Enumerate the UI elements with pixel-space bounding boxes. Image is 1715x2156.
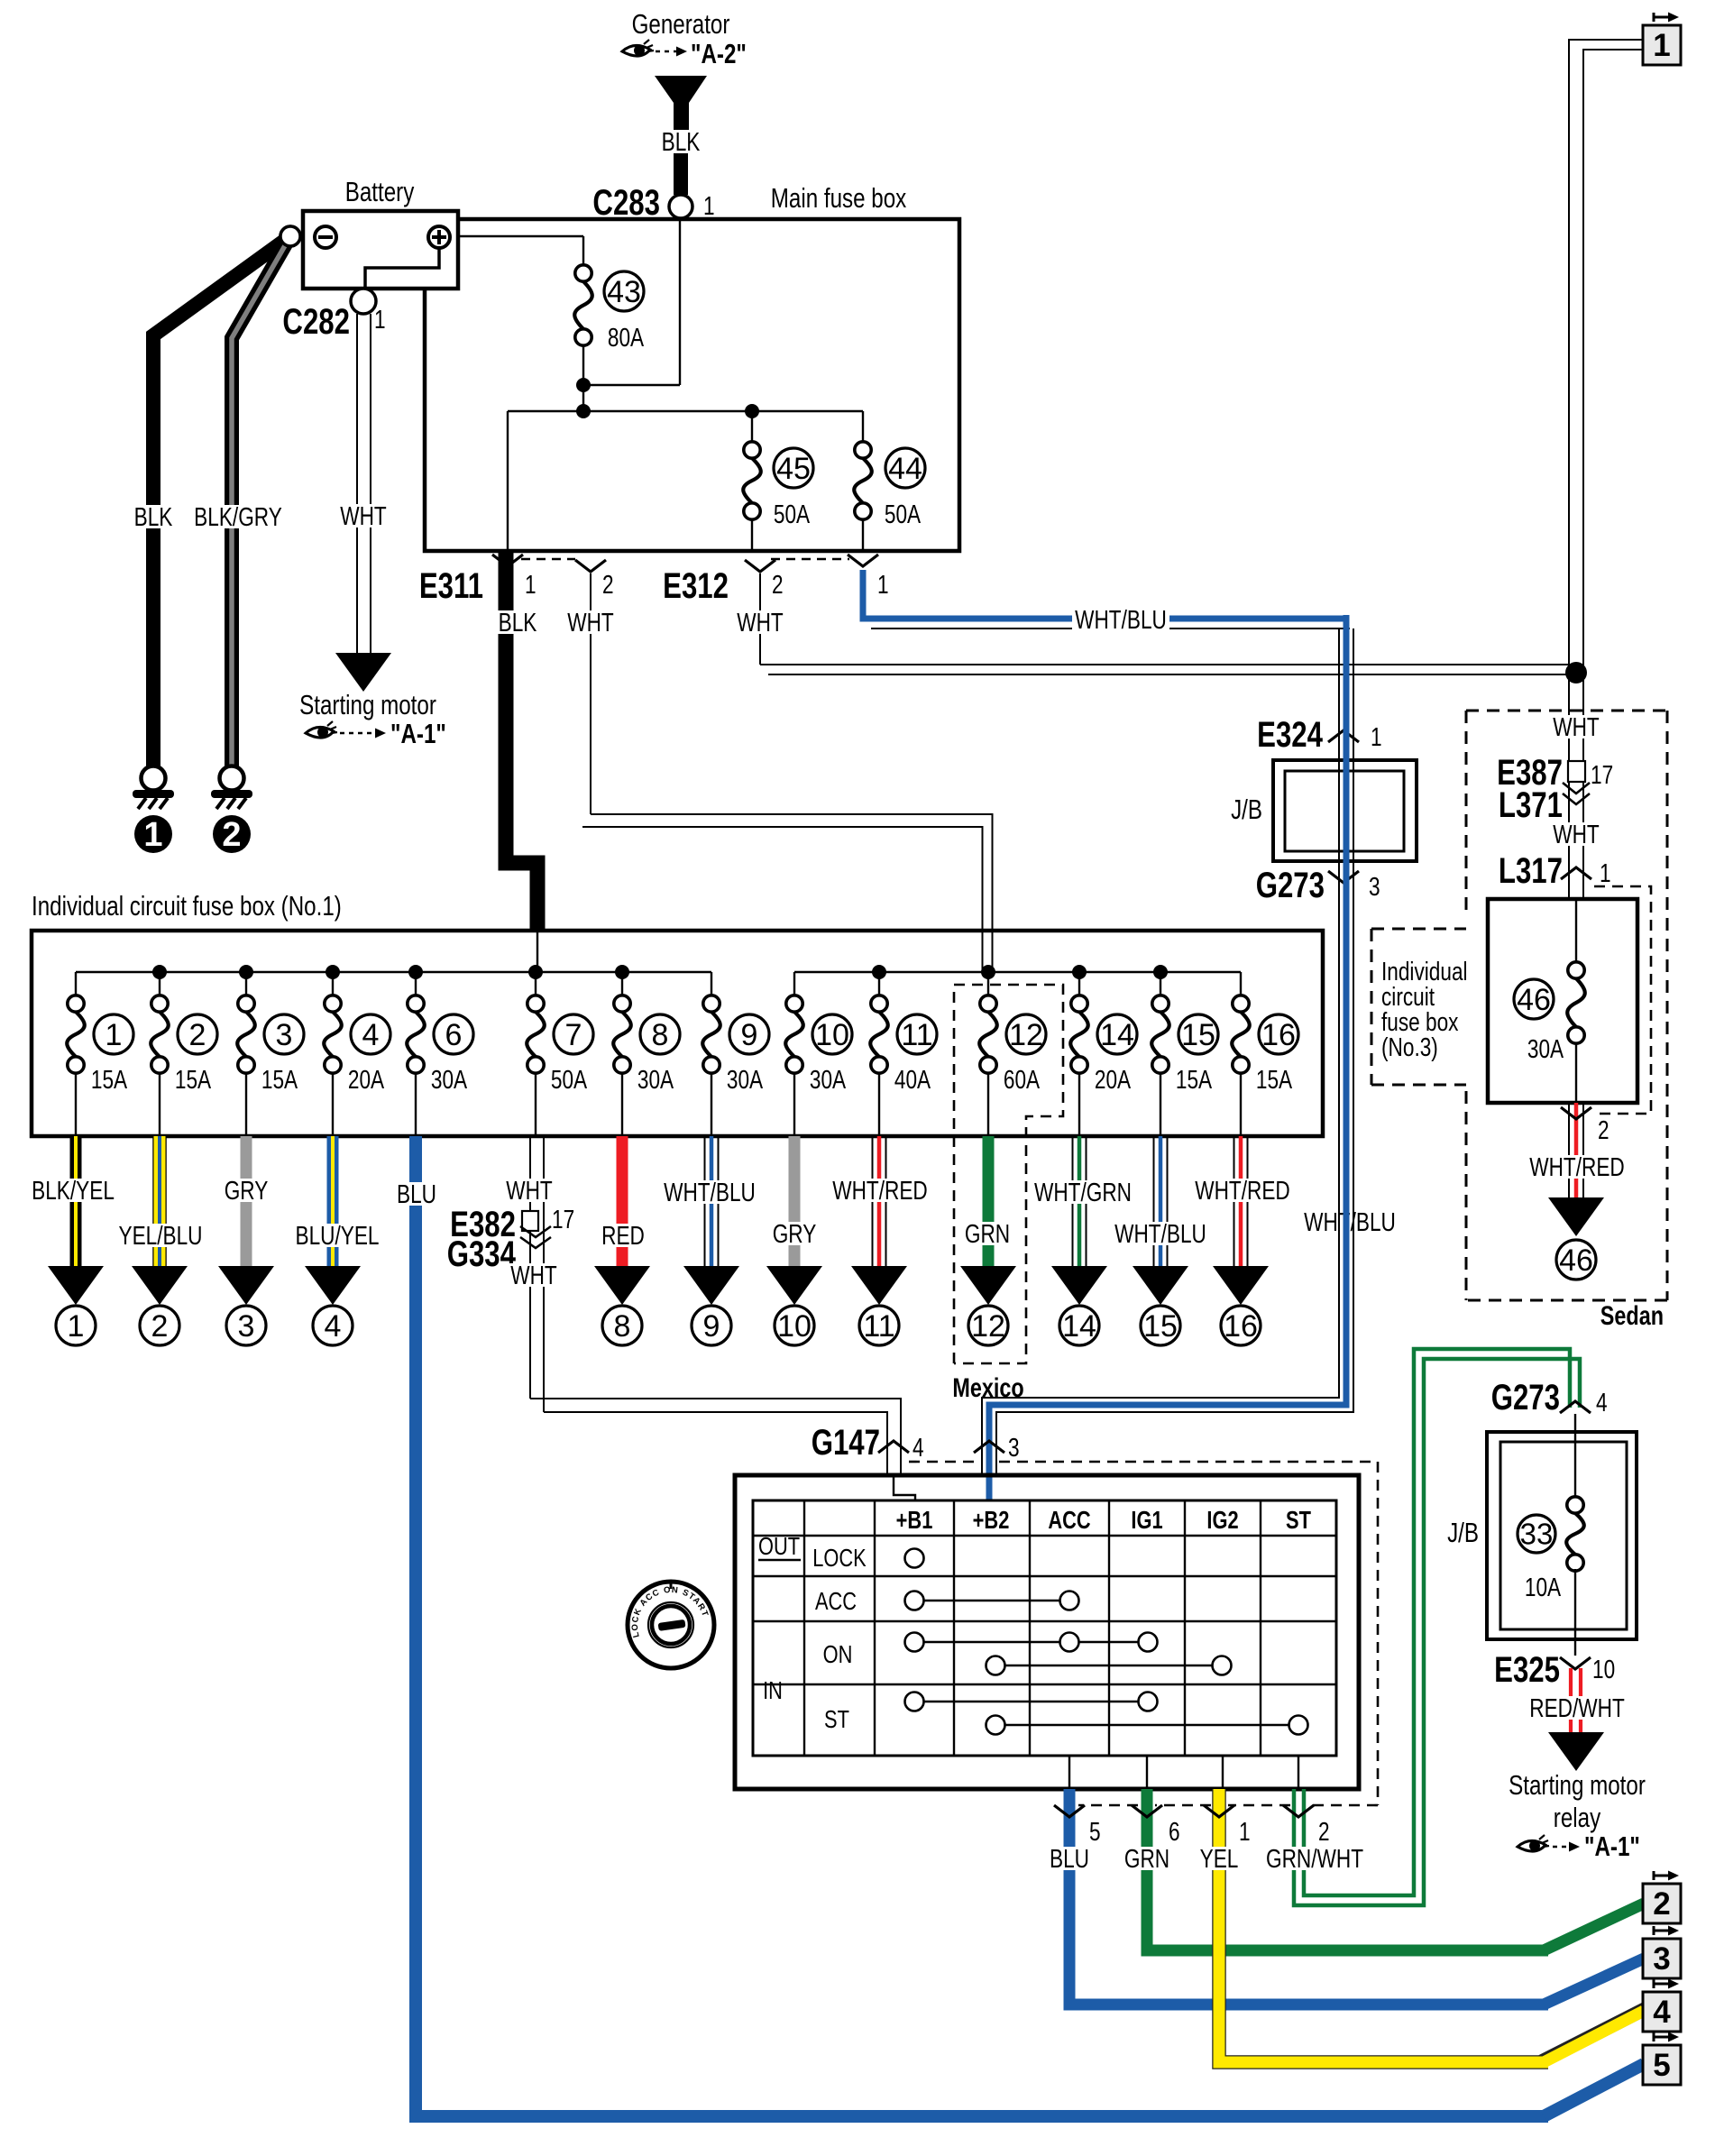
svg-text:8: 8	[652, 1018, 669, 1052]
svg-text:15A: 15A	[1176, 1064, 1213, 1094]
svg-text:"A-1": "A-1"	[390, 718, 446, 749]
svg-text:J/B: J/B	[1231, 794, 1262, 825]
svg-text:GRY: GRY	[773, 1218, 817, 1248]
svg-text:IG1: IG1	[1131, 1506, 1162, 1534]
svg-text:10A: 10A	[1525, 1572, 1562, 1601]
svg-text:E311: E311	[419, 565, 483, 606]
svg-text:GRN: GRN	[1124, 1843, 1169, 1873]
svg-text:4: 4	[1596, 1387, 1608, 1417]
svg-text:IG2: IG2	[1206, 1506, 1238, 1534]
svg-text:+B2: +B2	[973, 1506, 1010, 1534]
svg-text:2: 2	[1653, 1886, 1670, 1922]
svg-text:C283: C283	[592, 182, 660, 223]
svg-text:OUT: OUT	[758, 1532, 800, 1560]
svg-text:WHT: WHT	[567, 607, 614, 637]
svg-text:20A: 20A	[348, 1064, 385, 1094]
svg-text:BLK: BLK	[499, 607, 537, 637]
svg-text:G334: G334	[447, 1234, 516, 1274]
svg-text:WHT: WHT	[1553, 819, 1600, 849]
svg-text:50A: 50A	[885, 499, 922, 528]
svg-text:30A: 30A	[1527, 1033, 1564, 1063]
svg-text:46: 46	[1559, 1243, 1593, 1278]
svg-text:WHT/RED: WHT/RED	[832, 1175, 928, 1205]
svg-text:60A: 60A	[1004, 1064, 1041, 1094]
svg-text:1: 1	[703, 190, 715, 220]
svg-text:E312: E312	[663, 565, 729, 606]
svg-text:YEL: YEL	[1200, 1843, 1239, 1873]
svg-text:1: 1	[68, 1309, 85, 1344]
svg-text:17: 17	[552, 1204, 574, 1234]
svg-text:50A: 50A	[774, 499, 811, 528]
svg-text:IN: IN	[763, 1676, 783, 1704]
svg-text:6: 6	[445, 1018, 463, 1052]
svg-text:12: 12	[1009, 1018, 1043, 1052]
svg-text:Mexico: Mexico	[952, 1372, 1023, 1402]
svg-text:BLK/YEL: BLK/YEL	[32, 1175, 115, 1205]
svg-text:WHT: WHT	[510, 1260, 557, 1289]
svg-text:2: 2	[189, 1018, 206, 1052]
svg-text:43: 43	[607, 275, 641, 309]
svg-text:Main fuse box: Main fuse box	[771, 182, 907, 214]
svg-text:WHT/BLU: WHT/BLU	[1304, 1206, 1396, 1236]
svg-text:WHT/RED: WHT/RED	[1195, 1175, 1290, 1205]
svg-text:WHT/BLU: WHT/BLU	[1114, 1218, 1206, 1248]
svg-text:GRN: GRN	[965, 1218, 1010, 1248]
svg-text:3: 3	[1369, 871, 1380, 901]
svg-text:G147: G147	[812, 1422, 880, 1463]
svg-text:16: 16	[1261, 1018, 1296, 1052]
svg-text:BLK: BLK	[134, 501, 173, 531]
svg-text:10: 10	[1592, 1654, 1615, 1684]
svg-text:3: 3	[1653, 1941, 1670, 1977]
svg-text:14: 14	[1100, 1018, 1134, 1052]
svg-text:J/B: J/B	[1447, 1517, 1479, 1548]
svg-text:14: 14	[1062, 1309, 1096, 1344]
svg-text:17: 17	[1591, 759, 1613, 789]
svg-text:8: 8	[614, 1309, 631, 1344]
svg-text:2: 2	[151, 1309, 169, 1344]
svg-text:30A: 30A	[727, 1064, 764, 1094]
svg-text:1: 1	[374, 304, 386, 334]
svg-text:RED/WHT: RED/WHT	[1529, 1693, 1625, 1722]
svg-text:GRY: GRY	[225, 1175, 269, 1205]
svg-text:46: 46	[1517, 983, 1551, 1017]
svg-text:40A: 40A	[894, 1064, 931, 1094]
svg-text:RED: RED	[601, 1220, 645, 1250]
svg-text:2: 2	[222, 816, 241, 854]
svg-text:20A: 20A	[1095, 1064, 1132, 1094]
svg-text:16: 16	[1224, 1309, 1258, 1344]
svg-text:"A-2": "A-2"	[691, 38, 747, 69]
svg-text:10: 10	[777, 1309, 812, 1344]
svg-text:7: 7	[565, 1018, 582, 1052]
svg-text:BLU: BLU	[397, 1179, 436, 1208]
svg-text:C282: C282	[282, 301, 350, 342]
svg-text:15A: 15A	[261, 1064, 298, 1094]
svg-text:GRN/WHT: GRN/WHT	[1266, 1843, 1363, 1873]
svg-text:1: 1	[1600, 858, 1611, 887]
svg-text:44: 44	[888, 452, 922, 486]
svg-text:Starting motor: Starting motor	[1509, 1769, 1646, 1801]
svg-text:BLU/YEL: BLU/YEL	[295, 1220, 379, 1250]
svg-text:Battery: Battery	[345, 176, 415, 207]
svg-text:WHT/BLU: WHT/BLU	[1075, 604, 1167, 634]
svg-text:ON: ON	[823, 1640, 853, 1668]
svg-text:1: 1	[105, 1018, 123, 1052]
svg-text:ACC: ACC	[815, 1587, 857, 1615]
svg-text:WHT/GRN: WHT/GRN	[1034, 1177, 1132, 1206]
svg-text:1: 1	[525, 569, 537, 599]
svg-text:Sedan: Sedan	[1600, 1300, 1664, 1330]
svg-text:BLU: BLU	[1050, 1843, 1089, 1873]
svg-text:1: 1	[1371, 721, 1382, 751]
svg-text:"A-1": "A-1"	[1584, 1830, 1640, 1862]
svg-text:ACC: ACC	[1048, 1506, 1090, 1534]
svg-text:G273: G273	[1491, 1377, 1560, 1417]
svg-text:15A: 15A	[1256, 1064, 1293, 1094]
svg-text:2: 2	[602, 569, 614, 599]
svg-text:L317: L317	[1499, 850, 1563, 891]
svg-text:1: 1	[143, 816, 162, 854]
svg-text:YEL/BLU: YEL/BLU	[118, 1220, 202, 1250]
svg-text:2: 2	[1318, 1816, 1330, 1846]
svg-text:(No.3): (No.3)	[1381, 1032, 1438, 1061]
svg-text:30A: 30A	[810, 1064, 847, 1094]
svg-text:relay: relay	[1554, 1802, 1600, 1833]
svg-text:4: 4	[913, 1432, 924, 1462]
svg-text:4: 4	[325, 1309, 342, 1344]
svg-text:E325: E325	[1494, 1649, 1560, 1690]
svg-text:6: 6	[1169, 1816, 1180, 1846]
svg-text:2: 2	[1598, 1115, 1610, 1144]
svg-text:BLK/GRY: BLK/GRY	[194, 501, 282, 531]
svg-text:2: 2	[772, 569, 784, 599]
svg-text:LOCK: LOCK	[812, 1544, 867, 1572]
svg-text:11: 11	[863, 1309, 894, 1344]
svg-text:11: 11	[901, 1018, 932, 1052]
svg-text:WHT/BLU: WHT/BLU	[664, 1177, 756, 1206]
svg-text:Individual circuit fuse box (N: Individual circuit fuse box (No.1)	[32, 890, 342, 922]
svg-text:3: 3	[1008, 1432, 1020, 1462]
svg-text:WHT: WHT	[340, 500, 387, 530]
svg-text:5: 5	[1653, 2048, 1670, 2083]
svg-text:ST: ST	[1286, 1506, 1311, 1534]
svg-text:Generator: Generator	[632, 8, 730, 40]
svg-text:BLK: BLK	[662, 126, 701, 156]
svg-text:15A: 15A	[91, 1064, 128, 1094]
svg-text:Starting motor: Starting motor	[299, 689, 436, 720]
svg-text:9: 9	[741, 1018, 758, 1052]
svg-text:12: 12	[971, 1309, 1005, 1344]
svg-text:3: 3	[238, 1309, 255, 1344]
svg-text:E324: E324	[1257, 714, 1323, 755]
svg-text:45: 45	[776, 452, 811, 486]
svg-text:G273: G273	[1256, 865, 1325, 905]
svg-text:9: 9	[703, 1309, 720, 1344]
svg-text:30A: 30A	[637, 1064, 674, 1094]
svg-text:15: 15	[1181, 1018, 1215, 1052]
svg-text:30A: 30A	[431, 1064, 468, 1094]
svg-text:15: 15	[1143, 1309, 1178, 1344]
svg-text:WHT/RED: WHT/RED	[1529, 1151, 1625, 1181]
svg-text:WHT: WHT	[737, 607, 784, 637]
svg-text:1: 1	[877, 569, 889, 599]
svg-text:WHT: WHT	[1553, 711, 1600, 741]
svg-text:33: 33	[1520, 1518, 1554, 1551]
svg-text:5: 5	[1089, 1816, 1101, 1846]
svg-text:80A: 80A	[608, 322, 645, 352]
svg-text:WHT: WHT	[506, 1175, 553, 1205]
svg-text:4: 4	[362, 1018, 380, 1052]
svg-text:1: 1	[1653, 28, 1670, 63]
svg-text:50A: 50A	[551, 1064, 588, 1094]
svg-text:+B1: +B1	[896, 1506, 933, 1534]
svg-text:1: 1	[1239, 1816, 1251, 1846]
svg-text:4: 4	[1653, 1995, 1671, 2030]
svg-text:10: 10	[815, 1018, 849, 1052]
svg-text:3: 3	[276, 1018, 293, 1052]
svg-text:ST: ST	[824, 1705, 849, 1733]
svg-text:15A: 15A	[175, 1064, 212, 1094]
